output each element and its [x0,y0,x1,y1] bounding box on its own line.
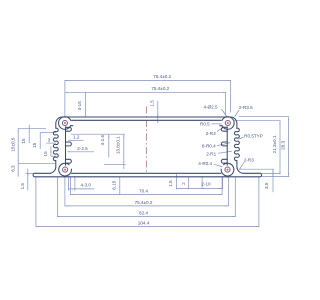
svg-text:70.4: 70.4 [139,189,148,194]
svg-text:75.4±0.2: 75.4±0.2 [151,86,169,91]
svg-text:2-R3: 2-R3 [244,158,254,163]
svg-text:1.5: 1.5 [168,180,173,187]
boss slot lips [71,125,73,127]
screw boss top-right [222,117,234,130]
svg-text:4-Ø2.5: 4-Ø2.5 [203,104,217,109]
svg-text:2-R3.5: 2-R3.5 [239,105,253,110]
svg-text:76.4±0.2: 76.4±0.2 [153,74,171,79]
svg-text:6.15: 6.15 [112,180,117,189]
svg-text:4-2.5: 4-2.5 [100,135,105,146]
top plate inner edge [72,119,222,121]
svg-text:15: 15 [21,138,26,144]
screw boss top-left (4-Ø2.5) [59,117,71,130]
svg-text:2-2.5: 2-2.5 [77,146,88,151]
svg-text:2-R3: 2-R3 [206,131,216,136]
extrusion profile outer contour [33,117,262,177]
svg-text:2: 2 [181,182,186,185]
dimension and extension lines [18,80,289,227]
svg-text:R0.5TYP: R0.5TYP [244,134,263,139]
svg-text:28.3: 28.3 [280,140,285,149]
svg-text:15: 15 [43,151,48,157]
base plate inner edge [72,172,222,174]
svg-text:4-3.0: 4-3.0 [80,182,91,187]
svg-text:21.3±0.1: 21.3±0.1 [272,135,277,153]
screw boss bottom-left [59,163,72,176]
svg-text:R0.5: R0.5 [200,121,210,126]
svg-text:2-10: 2-10 [201,181,211,186]
dimension text labels [10,74,285,226]
screw boss bottom-right [221,163,234,176]
svg-text:1.5: 1.5 [20,183,25,190]
svg-text:75.4±0.2: 75.4±0.2 [135,200,153,205]
svg-text:1.5: 1.5 [150,100,155,107]
svg-text:4-15: 4-15 [77,101,82,111]
svg-text:2-R1: 2-R1 [206,152,216,157]
svg-text:3: 3 [48,138,51,143]
svg-text:4-R0.4: 4-R0.4 [198,161,212,166]
left wall inner face with PCB guide tabs [65,127,67,165]
vertical centerline [145,107,147,174]
svg-text:82.4: 82.4 [139,211,148,216]
svg-text:104.4: 104.4 [138,221,150,226]
svg-text:13.8±0.1: 13.8±0.1 [115,136,120,154]
svg-text:3.5: 3.5 [264,182,269,189]
right wall inner face with PCB guide tabs [226,127,228,165]
svg-text:15±0.5: 15±0.5 [10,137,15,151]
svg-text:1.2: 1.2 [73,135,80,140]
svg-text:6.3: 6.3 [11,165,16,172]
svg-text:8-R0.4: 8-R0.4 [202,144,216,149]
svg-text:15: 15 [32,142,37,148]
